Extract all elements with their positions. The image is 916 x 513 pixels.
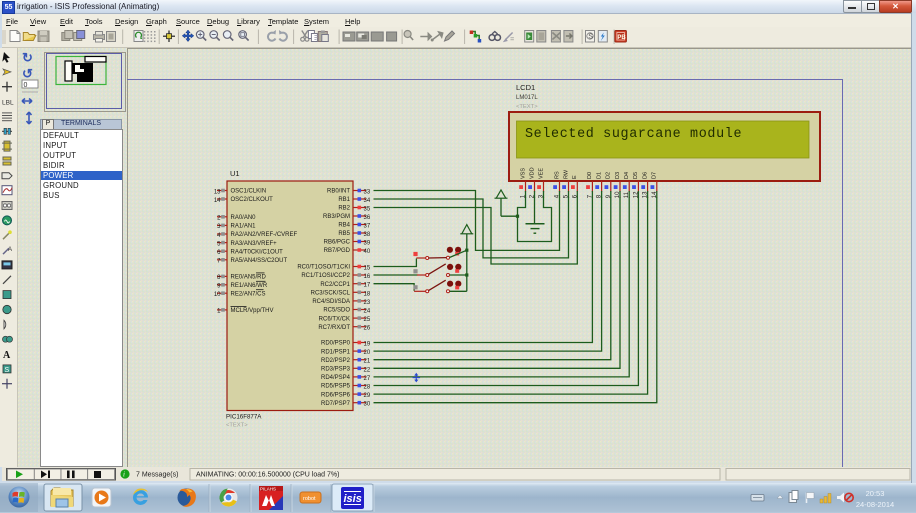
svg-text:14: 14	[214, 198, 221, 204]
svg-text:24-08-2014: 24-08-2014	[856, 500, 894, 509]
svg-text:RB0/INT: RB0/INT	[327, 189, 350, 195]
switch SW3 (open)	[426, 280, 462, 293]
svg-text:A: A	[8, 247, 12, 253]
svg-text:i: i	[123, 471, 125, 479]
wire SW1 to power rail	[450, 250, 467, 257]
svg-text:39: 39	[364, 241, 371, 247]
svg-text:RD5/PSP5: RD5/PSP5	[321, 384, 351, 390]
menu bar	[0, 14, 916, 27]
svg-text:<TEXT>: <TEXT>	[516, 104, 538, 110]
svg-text:16: 16	[364, 274, 371, 280]
U1 right pins	[297, 189, 371, 408]
title bar	[0, 0, 916, 14]
svg-text:PB: PB	[617, 35, 626, 41]
svg-text:RC7/RX/DT: RC7/RX/DT	[318, 325, 350, 331]
svg-text:RD0/PSP0: RD0/PSP0	[321, 341, 351, 347]
svg-text:RD3/PSP3: RD3/PSP3	[321, 367, 351, 373]
svg-text:27: 27	[364, 376, 371, 382]
wire SW2 to power rail	[450, 274, 467, 276]
svg-text:RD7/PSP7: RD7/PSP7	[321, 401, 351, 407]
svg-text:<TEXT>: <TEXT>	[226, 423, 248, 429]
window side borders	[911, 13, 916, 483]
svg-text:RB2: RB2	[338, 206, 350, 212]
mouse cursor crosshair	[413, 373, 421, 383]
wire SW3 to power rail	[450, 290, 467, 292]
svg-text:RC4/SDI/SDA: RC4/SDI/SDA	[312, 299, 350, 305]
wire RD0 to LCD D0	[374, 197, 593, 343]
svg-text:28: 28	[364, 385, 371, 391]
junction	[465, 273, 468, 276]
svg-text:RC1/T1OSI/CCP2: RC1/T1OSI/CCP2	[301, 273, 350, 279]
svg-text:RC5/SDO: RC5/SDO	[323, 308, 350, 314]
svg-text:RE1/AN6/WR: RE1/AN6/WR	[231, 283, 268, 289]
svg-text:OSC1/CLKIN: OSC1/CLKIN	[231, 189, 267, 195]
wire RC2 to switch SW3	[374, 284, 415, 291]
svg-text:LBL: LBL	[2, 100, 14, 107]
svg-text:RE2/AN7/CS: RE2/AN7/CS	[231, 291, 266, 297]
svg-text:RS: RS	[554, 171, 560, 179]
wire RB1 to LCD RW	[374, 197, 569, 258]
svg-text:RD4/PSP4: RD4/PSP4	[321, 375, 351, 381]
svg-text:RB4: RB4	[338, 223, 350, 229]
svg-text:VDD: VDD	[529, 167, 535, 179]
svg-text:RA4/T0CKI/C1OUT: RA4/T0CKI/C1OUT	[231, 249, 284, 255]
ground	[526, 224, 545, 233]
junction	[465, 249, 468, 252]
wire RD1 to LCD D1	[374, 197, 602, 351]
svg-text:29: 29	[364, 393, 371, 399]
svg-text:S: S	[5, 367, 10, 374]
svg-text:D1: D1	[596, 172, 602, 179]
svg-text:RA0/AN0: RA0/AN0	[231, 215, 257, 221]
svg-text:D0: D0	[587, 172, 593, 179]
svg-text:RB5: RB5	[338, 231, 350, 237]
taskbar	[0, 483, 916, 513]
svg-text:0: 0	[24, 82, 28, 89]
svg-text:24: 24	[364, 309, 371, 315]
state square (grey)	[413, 285, 417, 289]
wire RD7 to LCD D7	[374, 197, 657, 403]
wire LCD pin2 to ground	[534, 197, 536, 224]
wire RD3 to LCD D3	[374, 197, 621, 368]
svg-text:MCLR/Vpp/THV: MCLR/Vpp/THV	[231, 308, 274, 314]
svg-text:=: =	[510, 37, 514, 44]
svg-text:LM017L: LM017L	[516, 95, 538, 101]
svg-text:U1: U1	[230, 169, 240, 178]
svg-text:RE0/AN5/RD: RE0/AN5/RD	[231, 275, 267, 281]
svg-text:VSS: VSS	[520, 168, 526, 179]
wire RC1 to switch SW2	[374, 274, 418, 276]
state square (red)	[413, 252, 417, 256]
svg-text:13: 13	[214, 189, 221, 195]
LCD1 pins	[519, 167, 658, 198]
left panel	[18, 48, 127, 467]
svg-text:↺: ↺	[22, 66, 33, 81]
svg-text:RB3/PGM: RB3/PGM	[323, 214, 350, 220]
svg-text:RC2/CCP1: RC2/CCP1	[320, 282, 350, 288]
svg-text:38: 38	[364, 232, 371, 238]
schematic area	[127, 48, 913, 469]
svg-text:D3: D3	[615, 172, 621, 179]
svg-text:23: 23	[364, 300, 371, 306]
svg-text:RC0/T1OSO/T1CKI: RC0/T1OSO/T1CKI	[297, 265, 350, 271]
svg-text:7 Message(s): 7 Message(s)	[136, 472, 178, 479]
svg-text:10: 10	[214, 292, 221, 298]
svg-text:D5: D5	[633, 172, 639, 179]
svg-text:LCD1: LCD1	[516, 83, 535, 92]
svg-text:20:53: 20:53	[866, 489, 885, 498]
svg-text:D4: D4	[624, 172, 630, 179]
svg-text:RD1/PSP1: RD1/PSP1	[321, 349, 351, 355]
svg-text:22: 22	[364, 367, 371, 373]
svg-text:25: 25	[364, 317, 371, 323]
pin-name overbars (active-low)	[231, 273, 266, 307]
svg-text:RC6/TX/CK: RC6/TX/CK	[319, 316, 350, 322]
svg-text:D6: D6	[642, 172, 648, 179]
svg-text:PIC16F877A: PIC16F877A	[226, 414, 262, 421]
wire power to LCD net	[501, 215, 518, 217]
wire RB2 to LCD E	[374, 197, 578, 264]
svg-text:VEE: VEE	[538, 168, 544, 179]
svg-text:37: 37	[364, 224, 371, 230]
svg-text:RA1/AN1: RA1/AN1	[231, 224, 257, 230]
switch SW1 (closed)	[426, 247, 462, 260]
svg-text:Selected sugarcane module: Selected sugarcane module	[525, 127, 742, 142]
svg-text:34: 34	[364, 198, 371, 204]
wire RD2 to LCD D2	[374, 197, 611, 360]
svg-text:RD2/PSP2: RD2/PSP2	[321, 358, 351, 364]
svg-text:↻: ↻	[22, 50, 33, 65]
svg-text:26: 26	[364, 326, 371, 332]
power terminal (switch rail)	[460, 225, 473, 245]
svg-text:40: 40	[364, 249, 371, 255]
svg-text:A: A	[3, 350, 11, 361]
svg-text:17: 17	[364, 283, 371, 289]
svg-text:33: 33	[364, 190, 371, 196]
svg-text:RC3/SCK/SCL: RC3/SCK/SCL	[311, 291, 351, 297]
svg-text:RD6/PSP6: RD6/PSP6	[321, 392, 351, 398]
toolbar	[0, 27, 916, 48]
U1 left pins	[214, 189, 298, 315]
svg-text:20: 20	[364, 350, 371, 356]
window buttons	[843, 0, 863, 13]
svg-text:RA5/AN4/SS/C2OUT: RA5/AN4/SS/C2OUT	[231, 258, 288, 264]
svg-text:RB6/PGC: RB6/PGC	[324, 240, 351, 246]
svg-text:OSC2/CLKOUT: OSC2/CLKOUT	[231, 197, 274, 203]
svg-text:RW: RW	[563, 169, 569, 179]
svg-text:robot: robot	[303, 496, 316, 502]
wire LCD pin1/pin3 ground loop	[518, 197, 552, 242]
microcontroller U1 PIC16F877A	[226, 169, 353, 429]
svg-text:35: 35	[364, 207, 371, 213]
state square (grey)	[413, 269, 417, 273]
svg-text:D7: D7	[652, 172, 658, 179]
svg-text:S: S	[588, 34, 593, 41]
svg-text:RA3/AN3/VREF+: RA3/AN3/VREF+	[231, 241, 278, 247]
power terminal (LCD supply)	[495, 190, 508, 216]
wire RC0 to switch SW1	[374, 259, 417, 267]
svg-text:ANIMATING: 00:00:16.500000 (CP: ANIMATING: 00:00:16.500000 (CPU load 7%)	[196, 472, 339, 479]
svg-text:21: 21	[364, 359, 371, 365]
svg-text:19: 19	[364, 342, 371, 348]
simulation bar	[0, 467, 916, 481]
svg-text:RB7/PGD: RB7/PGD	[324, 248, 351, 254]
wire RD6 to LCD D6	[374, 197, 648, 394]
junction	[516, 215, 519, 218]
svg-text:30: 30	[364, 402, 371, 408]
svg-text:E: E	[572, 175, 578, 179]
left tool column	[0, 48, 18, 467]
sheet border	[127, 80, 843, 468]
svg-text:36: 36	[364, 215, 371, 221]
svg-text:D2: D2	[606, 172, 612, 179]
svg-text:RB1: RB1	[338, 197, 350, 203]
power rail to terminal	[466, 245, 468, 291]
svg-text:RA2/AN2/VREF-/CVREF: RA2/AN2/VREF-/CVREF	[231, 232, 298, 238]
wire RB0 to LCD RS	[374, 191, 560, 251]
svg-text:15: 15	[364, 266, 371, 272]
svg-text:18: 18	[364, 291, 371, 297]
svg-text:PILAHS: PILAHS	[260, 487, 276, 492]
LCD LCD1 LM017L	[509, 83, 820, 181]
wire RD4 to LCD D4	[374, 197, 630, 377]
svg-text:isis: isis	[344, 493, 362, 505]
wire RD5 to LCD D5	[374, 197, 639, 386]
switch SW2 (open)	[426, 264, 462, 277]
